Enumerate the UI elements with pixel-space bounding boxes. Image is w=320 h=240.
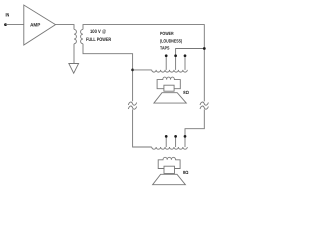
wire T2 tap 1 xyxy=(165,56,167,70)
wire break squiggle right bus xyxy=(200,102,208,105)
transformer T2 secondary winding with leads xyxy=(157,77,180,89)
svg-text:TAPS: TAPS xyxy=(160,46,170,51)
speaker LS1 cone xyxy=(154,93,186,103)
transformer T3 secondary winding with leads xyxy=(158,157,180,168)
transformer T1 secondary winding xyxy=(81,29,83,43)
svg-text:(LOUDNESS): (LOUDNESS) xyxy=(160,38,183,43)
node T3 tap 2 dot xyxy=(174,135,177,138)
wire break squiggle left bus xyxy=(128,102,136,105)
wire left bus to T2 primary xyxy=(133,69,152,71)
node T3 tap 3 dot xyxy=(184,135,187,138)
ground xyxy=(69,64,79,74)
node T2 tap 3 dot xyxy=(184,54,187,57)
wire T2 tap 2 to right bus xyxy=(176,49,205,70)
svg-text:8Ω: 8Ω xyxy=(183,170,189,175)
node T3 tap 1 dot xyxy=(165,135,168,138)
node IN terminal dot xyxy=(4,23,7,26)
svg-text:POWER: POWER xyxy=(160,31,174,36)
wire T2 tap 3 xyxy=(184,56,186,70)
speaker LS1 driver xyxy=(164,85,174,91)
svg-text:FULL POWER: FULL POWER xyxy=(86,37,111,43)
wire input to amp xyxy=(6,24,24,26)
node T2 tap 1 dot xyxy=(165,54,168,57)
node junction dot right bus / tap 2 xyxy=(203,47,206,50)
node T2 tap 2 dot xyxy=(174,54,177,57)
wire T3 tap 1 xyxy=(165,136,167,147)
wire T1 primary to ground xyxy=(73,44,75,64)
wire left bus lower to T3 primary xyxy=(133,109,152,147)
speaker LS2 cone xyxy=(153,174,186,184)
svg-text:IN: IN xyxy=(6,12,10,18)
svg-text:8Ω: 8Ω xyxy=(183,90,189,95)
speaker LS2 driver xyxy=(164,166,175,173)
transformer T3 primary winding (tapped) xyxy=(152,147,188,149)
svg-text:AMP: AMP xyxy=(30,23,41,29)
wire right bus lower to tap of T3 xyxy=(185,109,204,147)
wire T1 secondary top to right bus xyxy=(83,25,204,102)
svg-text:100 V @: 100 V @ xyxy=(90,29,106,35)
wire T3 tap 2 xyxy=(175,136,177,147)
wire amp output to transformer T1 xyxy=(56,25,75,30)
op-amp U1 AMP triangle xyxy=(24,5,56,45)
wire T1 secondary bottom to left bus xyxy=(83,44,133,102)
transformer T1 primary winding xyxy=(74,29,76,43)
node junction dot left bus / T2 primary xyxy=(131,69,134,72)
transformer T2 primary winding (tapped) xyxy=(152,70,188,72)
